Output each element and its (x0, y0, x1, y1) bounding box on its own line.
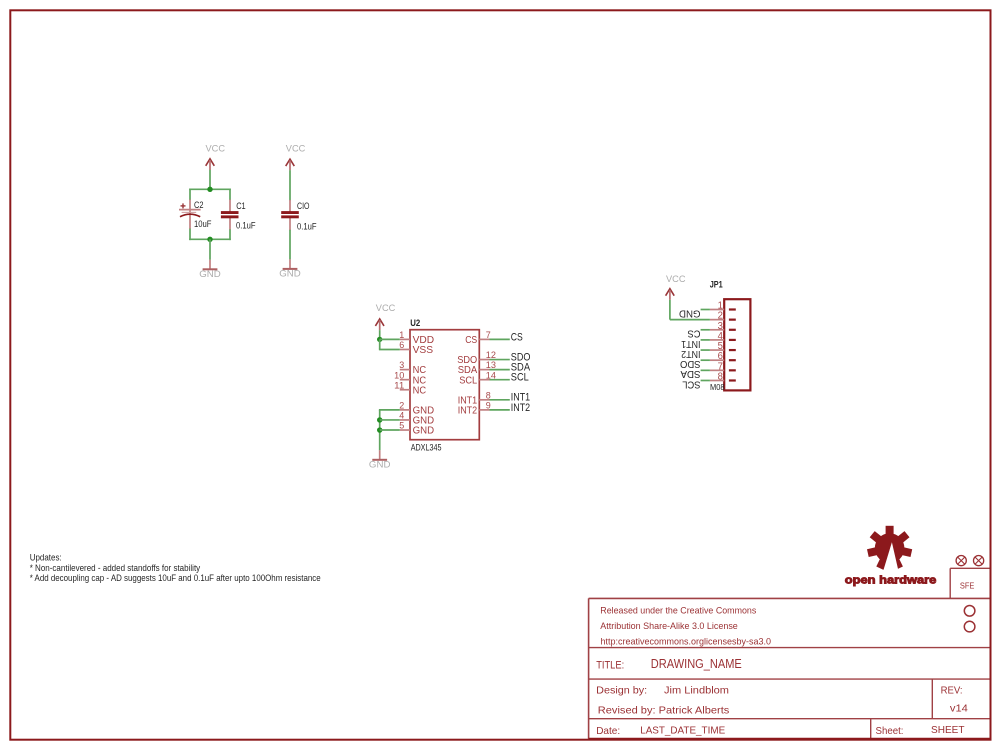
supply symbol GND (GND3) (369, 450, 391, 470)
U2 pin 11 (NC) left stub (400, 389, 410, 391)
supply symbol VCC (VCC3) (375, 303, 395, 330)
svg-text:TITLE:: TITLE: (596, 659, 624, 671)
wire net INT2 to JP1 pin 5 (701, 349, 710, 351)
svg-text:SHEET: SHEET (931, 724, 965, 736)
wire net CS (490, 338, 510, 340)
svg-text:SCL: SCL (511, 372, 529, 384)
wire bottom horizontal (189, 238, 231, 240)
wire net INT1 to JP1 pin 4 (701, 339, 710, 341)
svg-text:CS: CS (511, 331, 523, 343)
JP1 pin 7 stub (710, 369, 724, 371)
U2 pin 7 (CS) right stub (479, 338, 489, 340)
wire right branch lower (229, 229, 231, 240)
svg-text:* Add decoupling cap - AD sugg: * Add decoupling cap - AD suggests 10uF … (30, 573, 321, 583)
junction node GND pin4 (377, 417, 382, 422)
U2 pin 4 (GND) left stub (400, 419, 410, 421)
capacitor CIO (0.1uF) (281, 200, 299, 230)
logo open-source-hardware gear (867, 526, 912, 571)
marker circled-X 1 (956, 556, 966, 566)
svg-text:INT2: INT2 (458, 404, 478, 416)
U2 pin 1 (VDD) left stub (400, 338, 410, 340)
U2 pin 8 (INT1) right stub (479, 399, 489, 401)
title block bottom edge (589, 738, 990, 740)
wire net SCL (490, 379, 510, 381)
U2 pin 10 (NC) left stub (400, 379, 410, 381)
wire node down to VSS row (379, 339, 381, 349)
wire VCC1 to junction (209, 170, 211, 189)
U2 pin 3 (NC) left stub (400, 369, 410, 371)
svg-text:SFE: SFE (960, 582, 975, 591)
wire CIO to GND2 (289, 230, 291, 260)
license circle 2 (964, 621, 975, 632)
JP1 pin 5 stub (710, 349, 724, 351)
capacitor C1 (0.1uF) (221, 200, 239, 230)
U2 pin 14 (SCL) right stub (479, 379, 489, 381)
IC U2 ADXL345 body (410, 330, 479, 440)
svg-text:0.1uF: 0.1uF (236, 220, 256, 231)
U2 pin 12 (SDO) right stub (479, 359, 489, 361)
junction node GND pin5 (377, 427, 382, 432)
wire net SDA (490, 369, 510, 371)
svg-text:INT2: INT2 (511, 402, 530, 414)
title block line under license (589, 647, 990, 649)
JP1 pin 2 stub (710, 319, 724, 321)
wire net GND to JP1 pin 1 (701, 309, 710, 311)
junction top node (207, 187, 212, 192)
wire VCC4 down (669, 300, 671, 320)
JP1 pin 3 stub (710, 329, 724, 331)
U2 pin 9 (INT2) right stub (479, 409, 489, 411)
wire net INT1 (490, 399, 510, 401)
svg-text:Jim Lindblom: Jim Lindblom (664, 685, 729, 697)
svg-text:SCL: SCL (682, 378, 700, 390)
wire net CS to JP1 pin 3 (701, 329, 710, 331)
wire net SDO to JP1 pin 6 (701, 359, 710, 361)
wire VCC4 to JP1 pin2 (670, 319, 710, 321)
JP1 pin 6 stub (710, 359, 724, 361)
svg-text:REV:: REV: (941, 685, 963, 697)
svg-text:11: 11 (394, 380, 404, 391)
svg-text:CIO: CIO (297, 201, 310, 211)
wire node to pin1 VDD (380, 338, 400, 340)
JP1 pin 1 contact dash (729, 308, 736, 310)
svg-text:SCL: SCL (459, 374, 477, 386)
title block divider Sheet (870, 719, 872, 740)
wire VCC2 to CIO (289, 170, 291, 200)
supply symbol VCC (VCC4) (666, 274, 686, 300)
license circle 1 (964, 606, 975, 617)
title block outline top (589, 597, 990, 599)
supply symbol VCC (VCC1) (206, 143, 226, 170)
svg-text:CS: CS (465, 334, 477, 346)
svg-text:VCC: VCC (376, 303, 396, 314)
svg-text:M08: M08 (710, 382, 725, 392)
svg-text:Design by:: Design by: (596, 685, 647, 697)
wire pin2 GND horizontal (379, 409, 400, 411)
U2 pin 13 (SDA) right stub (479, 369, 489, 371)
svg-text:VCC: VCC (666, 274, 686, 285)
svg-text:0.1uF: 0.1uF (297, 222, 317, 233)
svg-text:VSS: VSS (413, 344, 434, 356)
JP1 pin 2 contact dash (729, 319, 736, 321)
JP1 pin 4 contact dash (729, 339, 736, 341)
svg-text:GND: GND (369, 459, 391, 470)
svg-text:5: 5 (399, 421, 404, 432)
svg-text:6: 6 (399, 340, 404, 351)
connector JP1 body M08 (724, 299, 750, 390)
wire net SCL to JP1 pin 8 (701, 379, 710, 381)
junction bottom node (207, 237, 212, 242)
wire right branch upper (229, 189, 231, 201)
junction node VDD (377, 337, 382, 342)
wire to pin6 VSS (379, 348, 400, 350)
svg-text:8: 8 (718, 371, 724, 382)
capacitor C2 (10uF polarized) (179, 200, 201, 230)
SFE box lines (950, 568, 989, 598)
wire GND vertical bus (379, 410, 381, 450)
svg-text:U2: U2 (410, 318, 420, 328)
title block line under title (589, 678, 990, 680)
supply symbol VCC (VCC2) (286, 144, 306, 171)
JP1 pin 8 contact dash (729, 379, 736, 381)
svg-text:ADXL345: ADXL345 (411, 442, 442, 452)
svg-text:Attribution Share-Alike 3.0 Li: Attribution Share-Alike 3.0 License (600, 621, 738, 632)
wire net SDO (490, 359, 510, 361)
wire to pin5 GND (380, 429, 400, 431)
svg-text:GND: GND (413, 425, 435, 437)
svg-text:Released under the Creative Co: Released under the Creative Commons (600, 606, 756, 617)
U2 pin 6 (VSS) left stub (400, 348, 410, 350)
svg-text:open hardware: open hardware (845, 574, 937, 586)
wire net INT2 (490, 409, 510, 411)
supply symbol GND (GND1) (199, 260, 221, 280)
JP1 pin 7 contact dash (729, 369, 736, 371)
svg-text:Date:: Date: (596, 725, 620, 737)
U2 pin 5 (GND) left stub (400, 429, 410, 431)
svg-text:GND: GND (279, 269, 301, 280)
title block outline left (588, 598, 590, 739)
wire top horizontal C2-C1 (189, 188, 231, 190)
svg-text:VCC: VCC (206, 143, 226, 154)
svg-text:JP1: JP1 (710, 280, 723, 290)
svg-text:* Non-cantilevered - added sta: * Non-cantilevered - added standoffs for… (30, 563, 201, 573)
JP1 pin 4 stub (710, 339, 724, 341)
svg-text:C1: C1 (236, 201, 246, 211)
wire to pin4 GND (380, 419, 400, 421)
U2 pin 2 (GND) left stub (400, 409, 410, 411)
svg-text:10uF: 10uF (194, 219, 212, 230)
JP1 pin 3 contact dash (729, 329, 736, 331)
svg-text:NC: NC (413, 384, 427, 396)
supply symbol GND (GND2) (279, 259, 301, 279)
wire junction to GND1 (209, 239, 211, 259)
wire left branch upper (189, 189, 191, 201)
svg-text:Updates:: Updates: (30, 552, 62, 562)
wire VCC3 down to pin1 node (379, 330, 381, 339)
svg-text:v14: v14 (950, 703, 968, 715)
wire left branch lower (189, 229, 191, 241)
JP1 pin 6 contact dash (729, 359, 736, 361)
svg-text:http:creativecommons.orglicens: http:creativecommons.orglicensesby-sa3.0 (601, 637, 772, 648)
JP1 pin 1 stub (710, 309, 724, 311)
svg-text:GND: GND (199, 269, 221, 280)
title block line under design (589, 718, 990, 720)
svg-text:LAST_DATE_TIME: LAST_DATE_TIME (640, 724, 725, 736)
title block divider REV (931, 679, 933, 719)
marker circled-X 2 (974, 556, 984, 566)
svg-text:Revised by: Patrick Alberts: Revised by: Patrick Alberts (598, 705, 730, 717)
svg-text:Sheet:: Sheet: (876, 725, 904, 737)
svg-text:DRAWING_NAME: DRAWING_NAME (651, 657, 742, 671)
svg-text:VCC: VCC (286, 144, 306, 155)
svg-text:C2: C2 (194, 200, 204, 210)
svg-text:GND: GND (679, 307, 701, 319)
JP1 pin 5 contact dash (729, 349, 736, 351)
wire net SDA to JP1 pin 7 (701, 369, 710, 371)
JP1 pin 8 stub (710, 379, 724, 381)
